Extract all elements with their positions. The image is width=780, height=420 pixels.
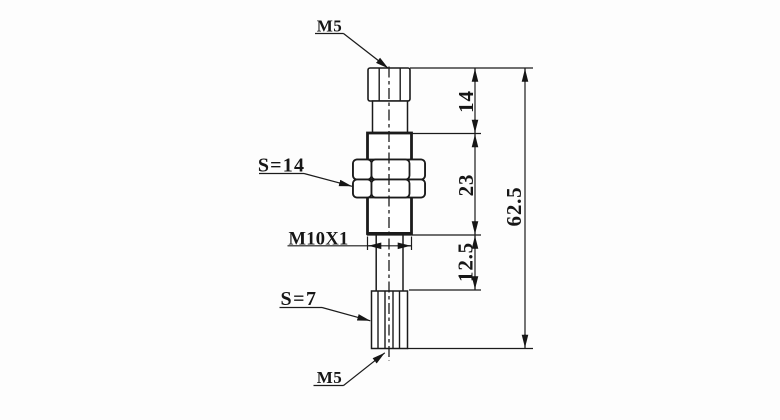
M10 threaded body: [367, 133, 412, 234]
svg-text:62.5: 62.5: [502, 187, 526, 227]
extension line at 23/12.5 boundary: [412, 234, 481, 236]
svg-text:23: 23: [454, 174, 478, 197]
svg-text:S=14: S=14: [258, 155, 305, 177]
svg-text:M10X1: M10X1: [288, 230, 348, 250]
leader S=7: [280, 308, 371, 321]
M10X1 dimension line: [288, 237, 413, 251]
upper neck: [373, 101, 408, 133]
svg-text:M5: M5: [317, 16, 343, 35]
svg-text:14: 14: [454, 90, 478, 113]
extension line at 14/23 boundary: [412, 133, 481, 135]
top M5 stud head: [368, 68, 410, 101]
svg-text:12.5: 12.5: [454, 242, 478, 282]
inner dimension line: [474, 68, 476, 290]
extension line bottom: [408, 348, 534, 350]
hex nut S=14 upper: [353, 160, 425, 180]
svg-text:M5: M5: [317, 368, 343, 387]
dim arrows inner: [474, 69, 476, 289]
svg-text:S=7: S=7: [280, 288, 317, 310]
hex nut S=14 lower: [353, 180, 425, 198]
lower neck shaft: [376, 234, 403, 291]
centerline: [388, 67, 390, 362]
leader M5 top: [315, 34, 388, 69]
extension line at 12.5 bottom boundary: [409, 289, 481, 291]
leader M5 bottom: [314, 353, 385, 386]
extension line top: [410, 67, 533, 69]
outer dimension line 62.5: [524, 68, 526, 349]
lower hex S=7 section: [372, 291, 408, 349]
leader S=14: [259, 174, 352, 187]
dim arrows outer: [524, 69, 526, 348]
